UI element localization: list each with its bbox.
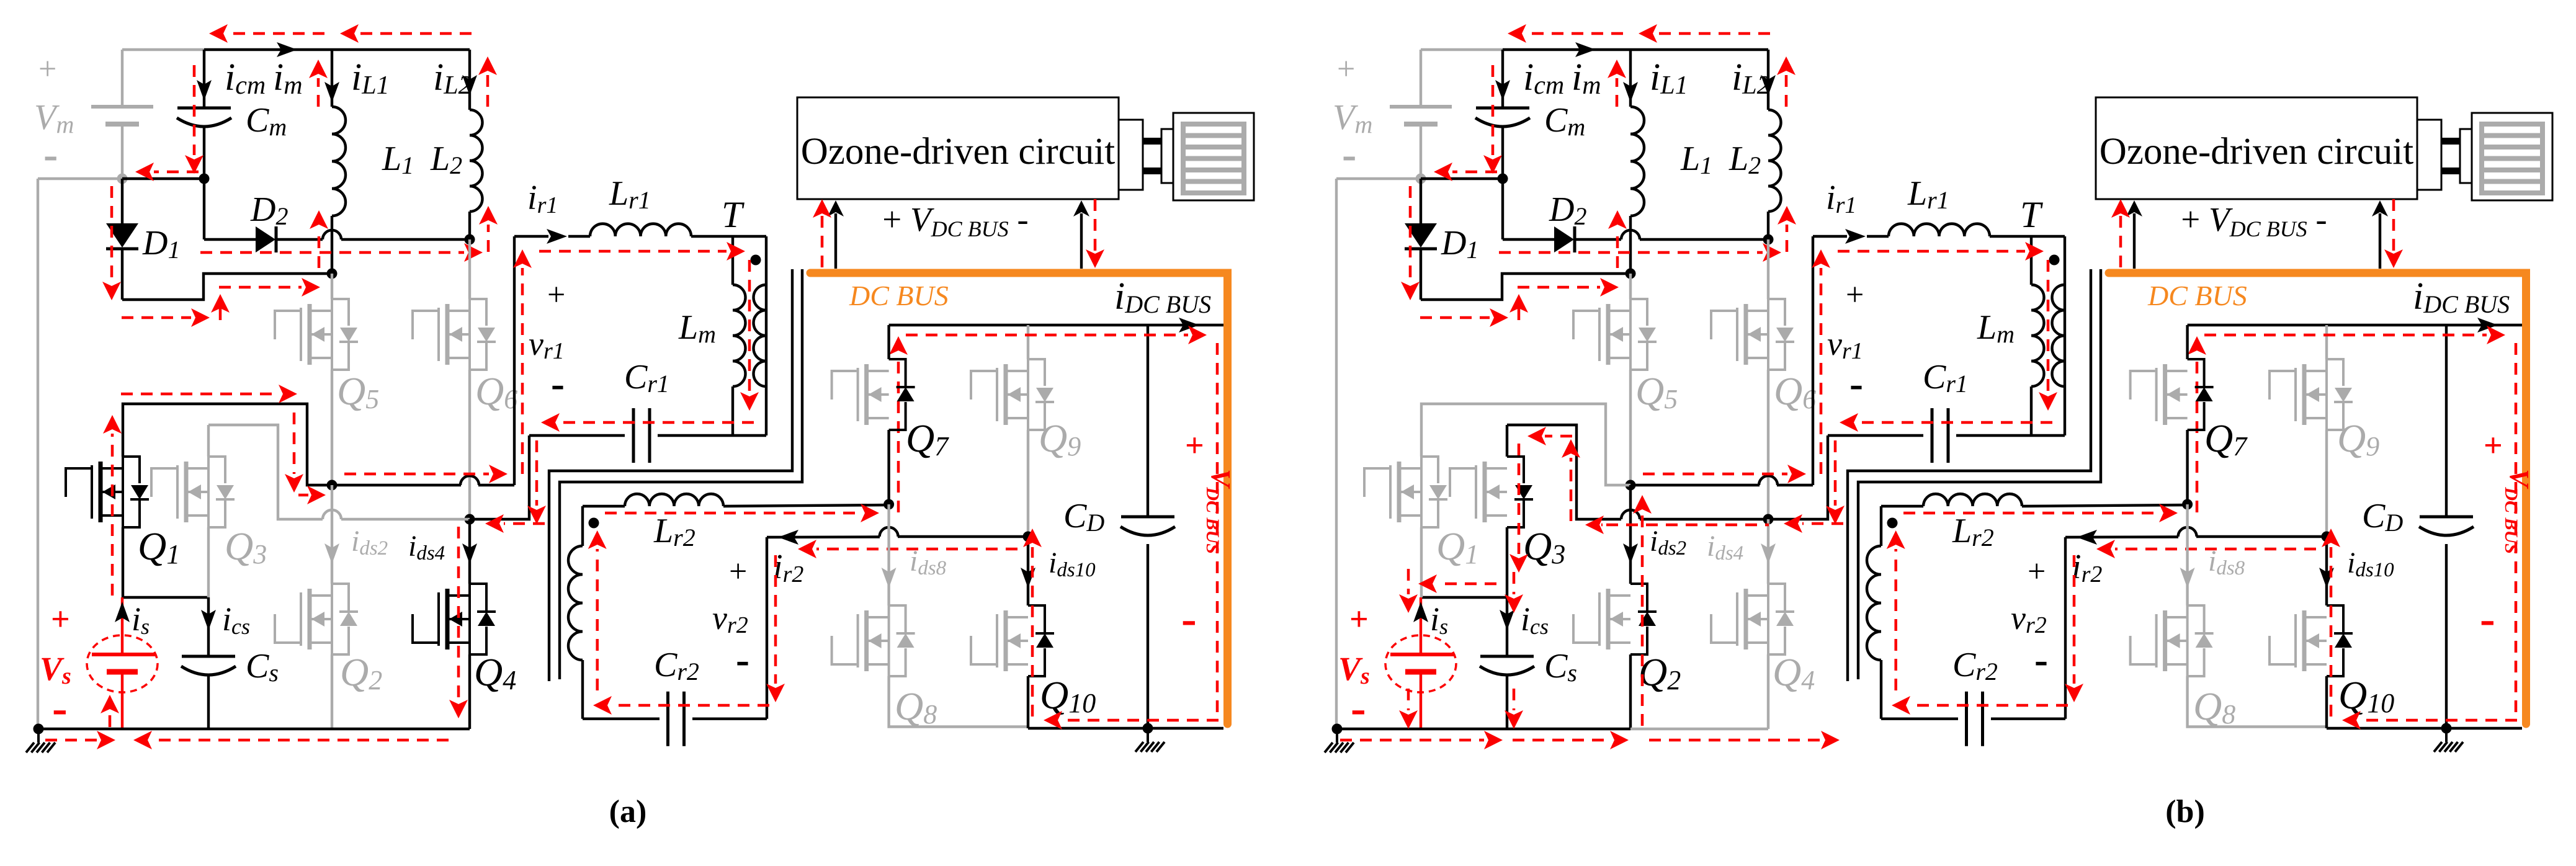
svg-text:(b): (b): [2165, 794, 2205, 829]
svg-text:(a): (a): [609, 794, 647, 829]
